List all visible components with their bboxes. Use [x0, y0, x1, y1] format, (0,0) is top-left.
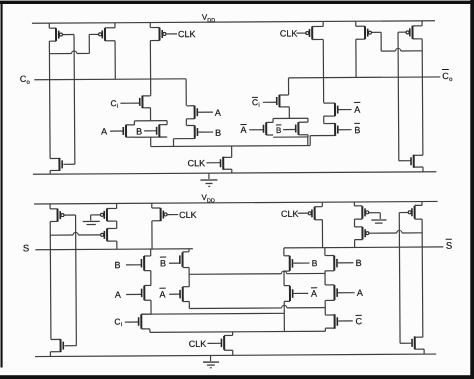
svg-text:i: i — [121, 322, 122, 328]
svg-text:C: C — [114, 317, 120, 327]
svg-text:A: A — [215, 108, 221, 118]
svg-text:B: B — [356, 258, 362, 268]
svg-text:CLK: CLK — [281, 209, 299, 219]
svg-text:B: B — [354, 125, 360, 135]
svg-text:S: S — [446, 241, 452, 252]
svg-text:i: i — [117, 104, 118, 110]
svg-text:A: A — [240, 125, 246, 135]
svg-text:i: i — [258, 103, 259, 109]
svg-text:C: C — [355, 316, 362, 326]
svg-text:A: A — [101, 126, 107, 136]
svg-text:A: A — [311, 289, 317, 299]
svg-text:DD: DD — [207, 198, 215, 204]
svg-text:B: B — [114, 260, 120, 270]
svg-text:B: B — [136, 126, 142, 136]
svg-text:CLK: CLK — [189, 339, 207, 349]
svg-text:B: B — [215, 128, 221, 138]
svg-text:CLK: CLK — [280, 28, 298, 38]
svg-text:B: B — [312, 258, 318, 268]
svg-text:S: S — [23, 243, 29, 254]
svg-text:A: A — [115, 290, 121, 300]
svg-text:B: B — [160, 258, 166, 268]
svg-text:A: A — [357, 288, 363, 298]
svg-text:A: A — [354, 105, 360, 115]
svg-text:A: A — [159, 289, 165, 299]
svg-text:B: B — [276, 126, 281, 135]
svg-text:CLK: CLK — [179, 210, 197, 220]
svg-text:CLK: CLK — [188, 158, 206, 168]
svg-text:DD: DD — [207, 18, 215, 24]
svg-text:C: C — [252, 97, 258, 107]
svg-text:C: C — [110, 98, 116, 108]
svg-text:CLK: CLK — [178, 29, 196, 39]
